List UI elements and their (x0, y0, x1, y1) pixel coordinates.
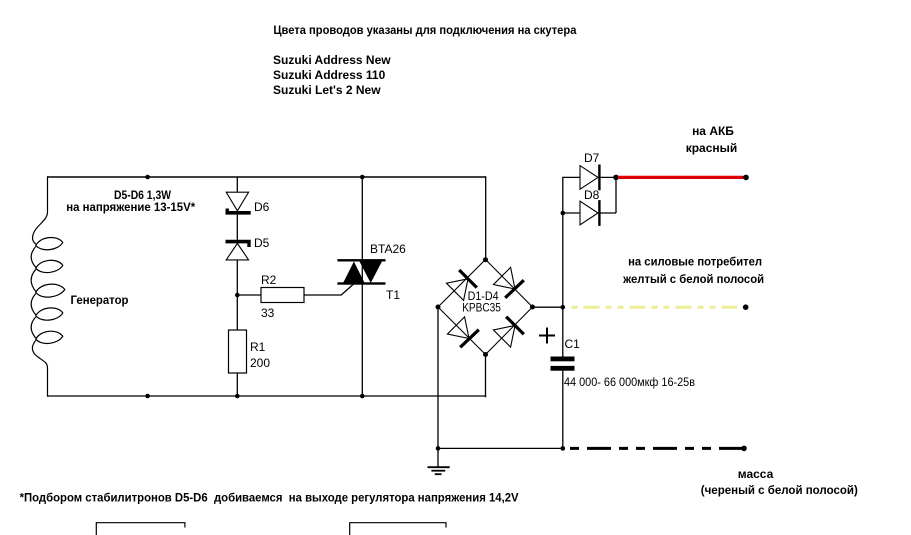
wire top rail (48, 176, 486, 178)
bridge rectifier diamond (438, 260, 533, 355)
svg-text:D8: D8 (584, 188, 600, 202)
label D7 (584, 151, 600, 165)
svg-text:33: 33 (261, 306, 275, 320)
node D8 tap (561, 211, 566, 216)
node triac bottom (360, 394, 365, 399)
label R2 value 33 (261, 306, 275, 320)
diode D2 top-right (493, 267, 523, 297)
label D1-D4 (468, 289, 499, 303)
svg-text:44 000- 66 000мкф 16-25в: 44 000- 66 000мкф 16-25в (564, 375, 695, 389)
resistor R2 (261, 288, 304, 303)
text: na silovye potrebitel (628, 255, 762, 269)
label C1 value (564, 375, 695, 389)
wire top rail to D6 (236, 177, 238, 192)
label D5 (254, 236, 270, 250)
triac T1 (337, 259, 385, 285)
wire bridge bottom to rail (485, 355, 488, 397)
text: massa (738, 467, 774, 481)
wire top rail to bridge (485, 176, 487, 259)
text: na AKB (692, 124, 734, 138)
text: zheltyj s beloj polosoj (622, 272, 764, 286)
node gate junction (235, 293, 240, 298)
svg-text:200: 200 (250, 356, 270, 370)
svg-text:(череный с белой полосой): (череный с белой полосой) (701, 483, 858, 497)
diode D1 top-left (446, 270, 476, 300)
node R1 bottom (235, 394, 240, 399)
wire D5 to R1 (236, 260, 238, 330)
wire R2 to triac gate (304, 284, 354, 295)
zener diode D5 (226, 240, 251, 260)
text: bottom regulation note (20, 491, 519, 505)
wire output vertical (above C1) (562, 177, 564, 357)
svg-text:KPBC35: KPBC35 (462, 301, 501, 315)
wire D6 to D5 (236, 215, 238, 240)
svg-text:D6: D6 (254, 200, 270, 214)
svg-text:Suzuki Address New: Suzuki Address New (273, 53, 391, 67)
text: D5-D6 rating note (66, 188, 195, 214)
wire to battery (red) (618, 176, 745, 179)
text: Генератор label (71, 293, 129, 307)
svg-text:масса: масса (738, 467, 774, 481)
text: Suzuki model list (273, 53, 391, 97)
node bridge DC right (530, 305, 535, 310)
capacitor C1 (551, 357, 575, 371)
svg-text:D7: D7 (584, 151, 600, 165)
diode D4 bottom-right (493, 317, 523, 347)
node bottom rail junction (145, 394, 150, 399)
waveform fragment left (96, 523, 185, 535)
node ground left (436, 446, 441, 451)
wire bridge left to ground rail (437, 307, 439, 448)
text: krasnyj (686, 141, 738, 155)
label T1 (386, 288, 400, 302)
svg-text:Suzuki Address 110: Suzuki Address 110 (273, 68, 386, 82)
label D6 (254, 200, 270, 214)
node triac top (360, 175, 365, 180)
wire to chassis (black dashed) (570, 447, 744, 450)
svg-text:Генератор: Генератор (71, 293, 129, 307)
wire R1 to bottom rail (236, 373, 238, 396)
waveform fragment right (350, 523, 446, 535)
svg-text:D5: D5 (254, 236, 270, 250)
svg-text:T1: T1 (386, 288, 400, 302)
svg-text:на силовые потребител: на силовые потребител (628, 255, 762, 269)
svg-text:*Подбором стабилитронов D5-D6: *Подбором стабилитронов D5-D6 добиваемся… (20, 491, 519, 505)
svg-text:R1: R1 (250, 340, 266, 354)
node bridge AC bottom (483, 352, 488, 357)
label C1 (565, 337, 581, 351)
text: cherenyj s beloj polosoj (701, 483, 858, 497)
svg-text:R2: R2 (261, 273, 277, 287)
diode D3 bottom-left (447, 317, 478, 347)
svg-text:BTA26: BTA26 (370, 242, 406, 256)
text: header wire colors note (273, 23, 576, 37)
node top rail junction (145, 175, 150, 180)
label BTA26 (370, 242, 406, 256)
node bridge AC top (483, 257, 488, 262)
svg-text:Цвета проводов указаны для под: Цвета проводов указаны для подключения н… (273, 23, 576, 37)
node battery terminal (743, 175, 749, 181)
wire to consumers (yellow dashed) (572, 306, 738, 309)
svg-text:Suzuki Let's 2 New: Suzuki Let's 2 New (273, 83, 381, 97)
label R2 (261, 273, 277, 287)
zener diode D6 (226, 192, 251, 214)
generator G coil (31, 176, 65, 396)
wire bridge right to output node (533, 306, 563, 308)
diode D8 (563, 200, 616, 226)
wire bottom rail (48, 395, 487, 397)
node ground C1 (561, 446, 566, 451)
label KPBC35 (462, 301, 501, 315)
svg-text:на напряжение 13-15V*: на напряжение 13-15V* (66, 200, 195, 214)
svg-text:красный: красный (686, 141, 738, 155)
node consumers terminal (743, 304, 749, 310)
wire D7/D8 cathode join (615, 177, 617, 213)
capacitor C1 polarity plus (539, 328, 555, 344)
node chassis terminal (741, 446, 747, 452)
svg-text:желтый с белой полосой: желтый с белой полосой (622, 272, 764, 286)
node yellow output tap (561, 305, 566, 310)
label D8 (584, 188, 600, 202)
diode D7 (563, 165, 616, 191)
wire output vertical (below C1) (562, 371, 564, 449)
ground symbol (428, 448, 450, 474)
label R1 (250, 340, 266, 354)
svg-text:C1: C1 (565, 337, 581, 351)
resistor R1 (229, 330, 247, 373)
label R1 value 200 (250, 356, 270, 370)
wire junction to R2 (237, 294, 261, 296)
svg-text:на АКБ: на АКБ (692, 124, 734, 138)
node bridge DC left (436, 305, 441, 310)
wire triac branch (361, 177, 363, 396)
node D7 output (613, 175, 619, 181)
wire ground rail (438, 447, 563, 449)
